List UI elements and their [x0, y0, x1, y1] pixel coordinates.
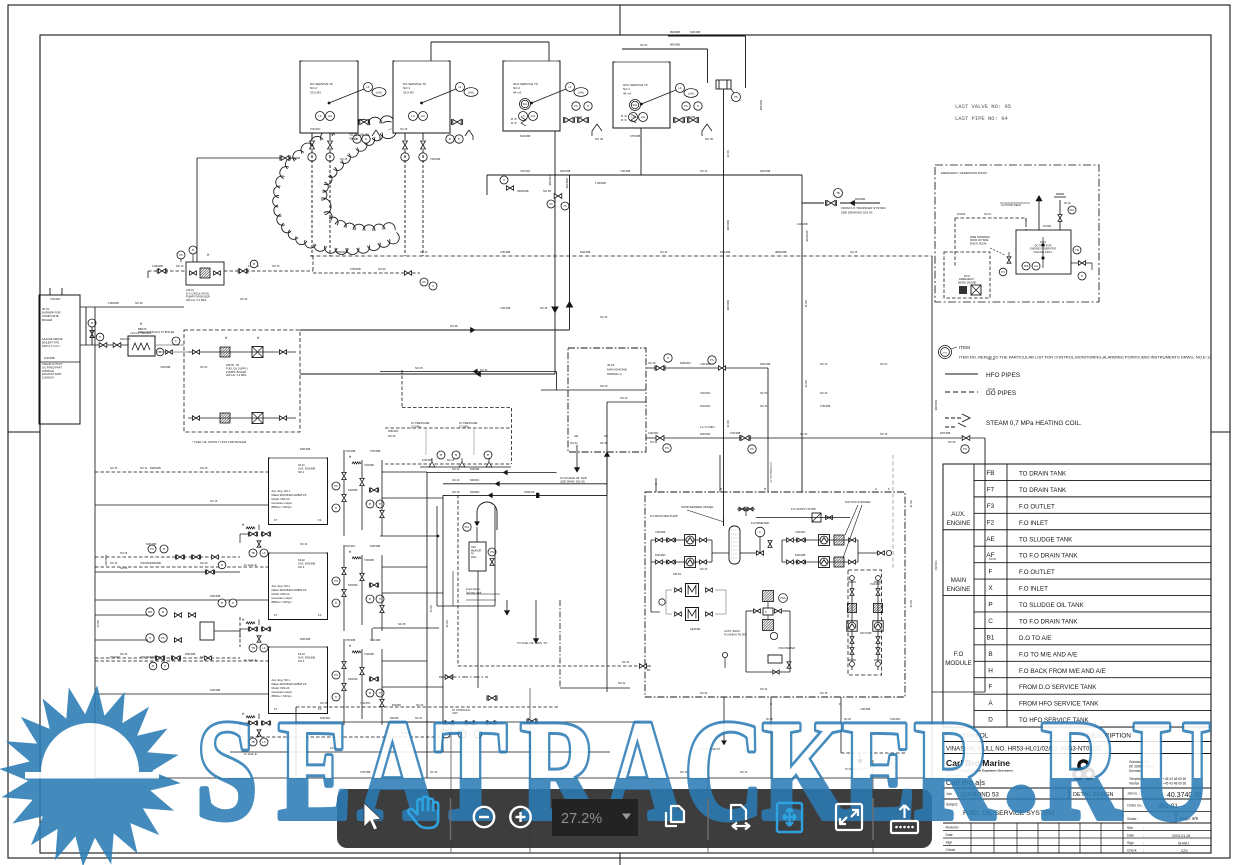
svg-text:LF: LF — [366, 85, 369, 89]
svg-text:NO 40: NO 40 — [240, 298, 248, 301]
svg-text:AE: AE — [574, 434, 578, 438]
svg-text:NO 32: NO 32 — [760, 405, 768, 408]
svg-text:PI: PI — [221, 601, 224, 605]
svg-text:NO 25: NO 25 — [120, 653, 128, 656]
svg-text:FO SLUDGE OIL TANK: FO SLUDGE OIL TANK — [560, 476, 587, 480]
svg-text:B1: B1 — [647, 668, 651, 672]
svg-text:33.5 M3: 33.5 M3 — [310, 90, 321, 94]
svg-text:703K06B: 703K06B — [364, 653, 374, 656]
svg-text:84K06D: 84K06D — [470, 490, 480, 494]
svg-text:TB: TB — [251, 551, 255, 555]
svg-text:842K06B: 842K06B — [726, 220, 729, 231]
svg-text:AF: AF — [604, 434, 608, 438]
svg-text:BOILER TYPE: BOILER TYPE — [42, 340, 59, 344]
svg-text:840K06B: 840K06B — [210, 595, 221, 598]
svg-text:FROM F.O TRANSFER SYSTEM: FROM F.O TRANSFER SYSTEM — [841, 206, 886, 210]
svg-text:*: * — [225, 337, 228, 343]
svg-text:PUMPS, BOILER: PUMPS, BOILER — [226, 370, 246, 374]
svg-text:F7: F7 — [987, 486, 995, 493]
svg-text:PI: PI — [162, 610, 165, 614]
svg-text:* FUEL OIL SUPPLY UNIT FOR BO: * FUEL OIL SUPPLY UNIT FOR BOILER — [192, 440, 247, 444]
svg-text:PS: PS — [334, 673, 338, 677]
svg-text:280K06B: 280K06B — [336, 250, 348, 254]
svg-text:740K06B: 740K06B — [655, 531, 666, 534]
svg-text:A: A — [875, 487, 877, 491]
svg-text:F3 SLUDGE OIL TK: F3 SLUDGE OIL TK — [769, 462, 771, 483]
svg-text:Maker:MAN B&W-GMB4T1/5: Maker:MAN B&W-GMB4T1/5 — [272, 493, 307, 497]
svg-text:F.O: F.O — [954, 651, 964, 658]
svg-text:NO 32: NO 32 — [800, 433, 808, 436]
svg-text:TI: TI — [149, 636, 152, 640]
svg-text:PS: PS — [334, 579, 338, 583]
svg-text:2000KG/H: 2000KG/H — [42, 369, 54, 373]
svg-text:NO 50: NO 50 — [96, 620, 99, 628]
svg-text:843K06B: 843K06B — [146, 543, 157, 546]
svg-text:740K06B: 740K06B — [370, 639, 381, 642]
svg-text:TO SLUDGE OIL TANK: TO SLUDGE OIL TANK — [1019, 602, 1085, 609]
svg-text:TO FUEL OIL SERV. TK.: TO FUEL OIL SERV. TK. — [517, 641, 548, 645]
svg-text:PI: PI — [192, 248, 195, 252]
svg-text:NO 40: NO 40 — [575, 116, 583, 119]
svg-text:LAHL: LAHL — [688, 92, 695, 95]
svg-text:ZZX: ZZX — [1181, 849, 1188, 853]
svg-text:TI: TI — [232, 601, 235, 605]
svg-text:B: B — [988, 651, 992, 658]
svg-text:NO 32: NO 32 — [618, 682, 626, 685]
svg-text:NO 40: NO 40 — [1064, 203, 1071, 205]
svg-text:F.O TO M/E AND A/E: F.O TO M/E AND A/E — [1019, 651, 1077, 658]
svg-text:842K06B: 842K06B — [580, 251, 591, 254]
svg-text:F.O SUPPLY PUMP: F.O SUPPLY PUMP — [791, 507, 816, 511]
svg-text:To drain tk.: To drain tk. — [244, 658, 258, 662]
svg-text:PS: PS — [334, 484, 338, 488]
svg-text:N7 PRESSURE: N7 PRESSURE — [411, 421, 430, 425]
svg-text:NO 25: NO 25 — [340, 158, 348, 161]
svg-text:PI: PI — [440, 453, 443, 457]
svg-text:HOMOGENIZER VESSEL: HOMOGENIZER VESSEL — [681, 505, 714, 509]
svg-text:6S50MC-C: 6S50MC-C — [607, 372, 623, 376]
svg-text:840K06B: 840K06B — [760, 170, 771, 173]
svg-text:27.2%: 27.2% — [561, 811, 602, 827]
svg-text:840K06B: 840K06B — [150, 466, 161, 470]
svg-text:NO 40: NO 40 — [429, 605, 432, 613]
svg-text:LS: LS — [318, 114, 321, 118]
svg-text:BOILER: BOILER — [42, 318, 52, 322]
svg-text:375K06B: 375K06B — [685, 116, 696, 119]
svg-text:LAST PIPE NO: 94: LAST PIPE NO: 94 — [955, 115, 1009, 122]
svg-text:L1/0.9 t/h HEATING: L1/0.9 t/h HEATING — [130, 332, 151, 335]
svg-text:880Kw x 720rpm: 880Kw x 720rpm — [272, 600, 293, 604]
svg-text:702K06C: 702K06C — [110, 656, 121, 659]
svg-text:PI: PI — [253, 262, 256, 266]
svg-text:NO 40: NO 40 — [648, 361, 656, 365]
svg-text:TI: TI — [335, 506, 338, 510]
svg-text:NO 25: NO 25 — [398, 622, 406, 626]
svg-text:AUX. ENGINE: AUX. ENGINE — [298, 656, 316, 660]
svg-text:F.O OUTLET: F.O OUTLET — [1019, 569, 1055, 576]
svg-text:N7 PRESSURE: N7 PRESSURE — [459, 421, 478, 425]
svg-text:NO 25: NO 25 — [447, 459, 455, 462]
svg-text:702K06C: 702K06C — [700, 392, 711, 395]
svg-text:NO 32: NO 32 — [300, 543, 308, 546]
svg-text:840K06B: 840K06B — [150, 561, 161, 565]
svg-text:PAL: PAL — [1070, 208, 1075, 212]
svg-text:F.O INLET: F.O INLET — [1019, 520, 1048, 527]
svg-text:H: H — [988, 667, 993, 674]
svg-text:TS: TS — [563, 204, 567, 208]
svg-text:SEE DRAWING 501-03: SEE DRAWING 501-03 — [841, 210, 873, 214]
svg-text:841K06C: 841K06C — [345, 545, 356, 548]
svg-text:PS: PS — [963, 447, 967, 451]
svg-text:NO 25: NO 25 — [804, 380, 807, 388]
svg-text:TO DRAIN TANK: TO DRAIN TANK — [1019, 487, 1067, 494]
svg-text:846K06C: 846K06C — [680, 361, 691, 365]
svg-text:B1: B1 — [987, 634, 995, 641]
svg-text:F3: F3 — [318, 613, 322, 617]
svg-text:NO 25: NO 25 — [850, 251, 858, 254]
svg-text:86K06B: 86K06B — [670, 43, 680, 47]
svg-text:AUX. ENGINE: AUX. ENGINE — [298, 562, 316, 566]
svg-text:84K06C: 84K06C — [470, 478, 480, 482]
svg-text:840K06B: 840K06B — [300, 638, 311, 641]
svg-text:NO 15: NO 15 — [110, 562, 118, 565]
svg-text:AUX.: AUX. — [951, 511, 966, 518]
svg-text:112K06B: 112K06B — [44, 356, 55, 360]
svg-text:NO 40: NO 40 — [600, 384, 608, 388]
svg-text:847K06B: 847K06B — [940, 432, 951, 435]
svg-text:703K06B: 703K06B — [364, 559, 374, 562]
svg-text:200e: 200e — [471, 556, 477, 559]
svg-text:TI: TI — [379, 597, 382, 601]
svg-text:NO 32: NO 32 — [804, 300, 807, 308]
svg-text:740K06B: 740K06B — [160, 366, 171, 369]
svg-text:D.O TO A/E: D.O TO A/E — [1019, 635, 1051, 642]
svg-text:FUEL OIL SUPPLY: FUEL OIL SUPPLY — [226, 366, 248, 370]
svg-text:*: * — [242, 619, 245, 625]
svg-text:NO 25: NO 25 — [120, 567, 128, 570]
svg-text:842K06B: 842K06B — [760, 363, 771, 366]
svg-text:F.O OUTLET: F.O OUTLET — [1019, 503, 1055, 510]
svg-text:F.O INLET: F.O INLET — [1019, 586, 1048, 593]
svg-text:TI: TI — [587, 104, 590, 108]
svg-text:89K06B: 89K06B — [670, 30, 680, 34]
svg-text:TI: TI — [365, 137, 368, 141]
svg-text:SUCTION STRAINER: SUCTION STRAINER — [845, 500, 871, 504]
svg-text:300 L/H, 0.4 MPa: 300 L/H, 0.4 MPa — [186, 298, 207, 302]
svg-text:33.0 M3: 33.0 M3 — [403, 90, 414, 94]
svg-text:Generator output: Generator output — [272, 501, 293, 505]
svg-text:LAHL: LAHL — [578, 91, 585, 94]
svg-text:F3: F3 — [318, 518, 322, 522]
svg-text:63.03: 63.03 — [298, 652, 305, 656]
svg-text:390K06B: 390K06B — [517, 189, 529, 193]
svg-text:703K06B: 703K06B — [364, 464, 374, 467]
svg-text:49 m3: 49 m3 — [513, 90, 522, 94]
svg-text:NO 50: NO 50 — [640, 44, 648, 47]
svg-text:C: C — [988, 618, 993, 625]
svg-text:LAL: LAL — [531, 114, 536, 118]
svg-text:842K06B: 842K06B — [565, 178, 568, 189]
svg-text:375K06B: 375K06B — [820, 405, 831, 408]
svg-text:F: F — [888, 487, 890, 491]
svg-text:AE: AE — [986, 536, 995, 543]
svg-text:P: P — [988, 602, 992, 609]
svg-text:Maker:MAN B&W-GMB4T1/5: Maker:MAN B&W-GMB4T1/5 — [272, 682, 307, 686]
svg-text:D: D — [764, 487, 767, 491]
svg-text:443K06C: 443K06C — [648, 432, 659, 435]
svg-text:46.01: 46.01 — [607, 363, 615, 367]
svg-text:EMERGENCY GENERATOR ROOM: EMERGENCY GENERATOR ROOM — [941, 171, 987, 175]
svg-text:LF: LF — [458, 85, 461, 89]
svg-text:LS: LS — [411, 114, 414, 118]
svg-text:EXHAUST PART: EXHAUST PART — [42, 372, 62, 376]
svg-text:NO 30: NO 30 — [595, 137, 604, 141]
svg-text:NO 30: NO 30 — [135, 301, 143, 305]
svg-text:185.03: 185.03 — [673, 572, 681, 576]
svg-text:842K06B: 842K06B — [726, 300, 729, 311]
svg-text:F.O BACK FROM M/E AND A/E: F.O BACK FROM M/E AND A/E — [1019, 668, 1106, 675]
svg-text:740K06B: 740K06B — [620, 170, 631, 173]
svg-text:PS: PS — [150, 547, 154, 551]
svg-text:PS: PS — [665, 446, 669, 450]
svg-text:NO 50: NO 50 — [880, 363, 888, 366]
svg-text:575K06B: 575K06B — [350, 267, 361, 271]
svg-text:F.O BOOSTER PUMP: F.O BOOSTER PUMP — [650, 514, 678, 518]
svg-text:FLOWMETER: FLOWMETER — [751, 521, 769, 525]
svg-text:146K06B: 146K06B — [108, 301, 119, 305]
svg-text:OIL FIRED PART: OIL FIRED PART — [42, 365, 62, 369]
svg-text:842K06B: 842K06B — [690, 31, 701, 34]
svg-text:NO 15: NO 15 — [660, 251, 668, 254]
svg-text:300 L/H, 3.4 MPa: 300 L/H, 3.4 MPa — [226, 373, 247, 377]
svg-text:740K06B: 740K06B — [500, 307, 511, 310]
svg-text:DIESEL ENGINE: DIESEL ENGINE — [958, 281, 977, 284]
svg-text:X08: X08 — [1024, 264, 1029, 268]
svg-text:X: X — [988, 585, 993, 592]
svg-text:PI: PI — [449, 137, 452, 141]
svg-text:840K06C: 840K06C — [348, 489, 358, 492]
svg-text:840K06C: 840K06C — [348, 678, 358, 681]
svg-text:NO 40: NO 40 — [452, 490, 460, 494]
svg-text:ENGINE: ENGINE — [947, 586, 971, 593]
svg-text:843K06D: 843K06D — [700, 433, 711, 436]
svg-text:41K06A: 41K06A — [1043, 225, 1052, 228]
svg-text:NO 25: NO 25 — [726, 150, 729, 158]
svg-text:702K06C: 702K06C — [520, 170, 531, 173]
svg-text:NO 25: NO 25 — [415, 366, 423, 370]
svg-text:To drain tk.: To drain tk. — [244, 563, 258, 567]
svg-text:TI: TI — [164, 664, 167, 668]
svg-text:PS: PS — [734, 95, 738, 99]
svg-text:PS: PS — [179, 253, 183, 257]
svg-text:TI: TI — [99, 335, 102, 339]
svg-text:TO F.O DRAIN TANK: TO F.O DRAIN TANK — [1019, 553, 1078, 560]
svg-text:PS: PS — [1001, 270, 1005, 274]
svg-text:84K06B: 84K06B — [855, 197, 865, 201]
svg-text:NO 32: NO 32 — [140, 467, 148, 470]
svg-text:Aux. Eng. NO.1: Aux. Eng. NO.1 — [272, 584, 291, 588]
svg-text:843K06D: 843K06D — [655, 554, 666, 557]
svg-text:TI: TI — [667, 356, 670, 360]
svg-text:TI: TI — [221, 563, 224, 567]
svg-text:*: * — [349, 456, 352, 462]
svg-text:PI: PI — [369, 502, 372, 506]
svg-text:PI: PI — [369, 597, 372, 601]
svg-text:AF: AF — [986, 552, 994, 559]
svg-text:DO PIPES: DO PIPES — [986, 390, 1016, 397]
svg-text:NO 50: NO 50 — [200, 366, 208, 369]
svg-text:TO F.O DRAIN TANK: TO F.O DRAIN TANK — [1019, 618, 1078, 625]
svg-text:845K06B: 845K06B — [185, 653, 196, 656]
svg-text:H: H — [765, 611, 767, 614]
svg-text:NO 15: NO 15 — [210, 500, 218, 503]
svg-text:*: * — [207, 254, 210, 260]
svg-text:NO 65: NO 65 — [948, 441, 956, 444]
svg-text:NO 40: NO 40 — [600, 316, 608, 319]
svg-text:NO 25: NO 25 — [200, 561, 208, 565]
svg-text:NO 38: NO 38 — [600, 441, 608, 445]
svg-text:NO 25: NO 25 — [540, 307, 548, 310]
svg-text:63.02: 63.02 — [298, 558, 305, 562]
svg-text:180 PUMP: 180 PUMP — [860, 632, 872, 635]
svg-text:NO 32: NO 32 — [622, 661, 630, 664]
svg-text:*: * — [257, 337, 260, 343]
svg-text:470K06B: 470K06B — [730, 432, 741, 435]
svg-text:NO.3: NO.3 — [298, 659, 305, 663]
svg-text:NO 25: NO 25 — [400, 128, 408, 131]
svg-text:840K06C: 840K06C — [348, 584, 358, 587]
svg-text:LF: LF — [678, 86, 681, 90]
svg-text:TI: TI — [697, 104, 700, 108]
svg-text:170K06B: 170K06B — [595, 181, 606, 185]
svg-text:Maker:MAN B&W-GMB4T1/5: Maker:MAN B&W-GMB4T1/5 — [272, 588, 307, 592]
svg-text:PS: PS — [549, 202, 553, 206]
svg-text:NO 40: NO 40 — [650, 441, 658, 444]
svg-text:*: * — [349, 551, 352, 557]
svg-text:ITEM: ITEM — [959, 345, 970, 350]
svg-text:L1 / 0.4 MPa: L1 / 0.4 MPa — [700, 425, 715, 429]
svg-text:F2: F2 — [987, 519, 995, 526]
svg-text:432K06B: 432K06B — [805, 230, 809, 242]
svg-text:840K06B: 840K06B — [300, 448, 311, 451]
svg-text:841K06C: 841K06C — [120, 338, 131, 341]
svg-text:702K06C: 702K06C — [310, 128, 321, 131]
svg-text:VISCOMETER: VISCOMETER — [778, 646, 795, 650]
svg-text:185.05 - 05: 185.05 - 05 — [226, 363, 240, 367]
svg-text:375K06B: 375K06B — [630, 135, 641, 138]
svg-text:MODULE: MODULE — [945, 660, 971, 667]
svg-text:840K06B: 840K06B — [934, 400, 937, 411]
svg-text:FB: FB — [986, 470, 994, 477]
svg-text:PS: PS — [161, 636, 165, 640]
svg-text:NO.2: NO.2 — [298, 565, 305, 569]
svg-text:702K06C: 702K06C — [50, 298, 61, 301]
svg-text:675K06B: 675K06B — [422, 459, 433, 462]
svg-text:NO 30: NO 30 — [705, 137, 714, 141]
svg-text:841K06C: 841K06C — [700, 405, 711, 408]
svg-text:84K06B: 84K06B — [470, 467, 480, 471]
svg-text:702K06C: 702K06C — [140, 656, 151, 659]
svg-text:AUTO. BACK-: AUTO. BACK- — [724, 629, 741, 633]
svg-text:0.7 MPa: 0.7 MPa — [411, 424, 421, 428]
svg-text:NO 40: NO 40 — [420, 251, 428, 254]
svg-text:AUX. ENGINE: AUX. ENGINE — [298, 467, 316, 471]
svg-text:NO 25: NO 25 — [909, 600, 912, 608]
svg-text:HFO PIPES: HFO PIPES — [986, 372, 1020, 379]
svg-text:NO 40: NO 40 — [620, 396, 628, 400]
svg-text:375K06B: 375K06B — [500, 251, 511, 254]
svg-text:411K06B: 411K06B — [797, 222, 808, 226]
svg-text:PI: PI — [163, 547, 166, 551]
svg-text:1100KG/H: 1100KG/H — [42, 376, 54, 380]
svg-text:421K06: 421K06 — [957, 213, 966, 216]
svg-text:480K06B: 480K06B — [775, 250, 787, 254]
svg-text:V: V — [432, 284, 434, 288]
svg-text:Aux. Eng. NO.1: Aux. Eng. NO.1 — [272, 489, 291, 493]
svg-text:LS: LS — [262, 740, 265, 744]
svg-text:LAL: LAL — [1034, 264, 1039, 268]
svg-text:740K06B: 740K06B — [345, 450, 356, 453]
svg-text:TI: TI — [335, 601, 338, 605]
svg-text:NO 40: NO 40 — [820, 363, 828, 366]
svg-text:840K06B: 840K06B — [560, 170, 571, 173]
svg-text:MAIN: MAIN — [951, 577, 966, 584]
svg-text:843K06D: 843K06D — [104, 555, 107, 566]
svg-text:PAL: PAL — [465, 525, 470, 529]
svg-text:NO 15: NO 15 — [176, 264, 184, 268]
svg-text:LAL: LAL — [641, 115, 646, 119]
svg-text:PS: PS — [422, 280, 426, 284]
svg-text:702K06C: 702K06C — [795, 531, 806, 534]
svg-text:NO 25: NO 25 — [120, 552, 128, 555]
svg-text:842K06B: 842K06B — [370, 545, 381, 548]
svg-text:NO 25: NO 25 — [110, 467, 118, 470]
svg-text:LF: LF — [568, 85, 571, 89]
svg-text:STEAM 0,7 MPa HEATING COIL.: STEAM 0,7 MPa HEATING COIL. — [986, 420, 1082, 427]
svg-text:ORIFICE: ORIFICE — [524, 490, 535, 494]
svg-text:ENGIN. ROOM: ENGIN. ROOM — [970, 242, 986, 245]
svg-text:840K06B: 840K06B — [795, 554, 806, 557]
svg-text:ENGINE: ENGINE — [947, 520, 971, 527]
svg-text:140K06B: 140K06B — [152, 264, 163, 268]
svg-text:NO 25: NO 25 — [388, 435, 396, 438]
svg-text:NO 32: NO 32 — [452, 467, 460, 471]
svg-text:Model: 6DK-20: Model: 6DK-20 — [272, 592, 290, 596]
svg-text:Feed tanks f: Feed tanks f — [466, 587, 481, 591]
svg-text:F7: F7 — [274, 613, 278, 617]
svg-text:LAL: LAL — [421, 114, 426, 118]
svg-text:PS: PS — [490, 550, 494, 554]
svg-text:NO 50: NO 50 — [760, 392, 768, 395]
svg-text:PI: PI — [91, 321, 94, 325]
svg-text:TB: TB — [251, 646, 255, 650]
svg-text:740K06B: 740K06B — [700, 363, 711, 366]
svg-text:NO 40: NO 40 — [452, 478, 460, 482]
svg-text:TI: TI — [1081, 274, 1084, 278]
svg-text:SI: SI — [455, 453, 458, 457]
svg-text:XXX: XXX — [943, 353, 948, 355]
svg-text:HEATER: HEATER — [690, 627, 700, 631]
svg-text:TANK: TANK — [349, 137, 358, 141]
svg-text:842K06B: 842K06B — [520, 135, 531, 138]
svg-text:LAL: LAL — [328, 114, 333, 118]
svg-text:NO 50: NO 50 — [378, 267, 386, 271]
svg-text:LS: LS — [262, 646, 265, 650]
svg-text:TI: TI — [379, 502, 382, 506]
svg-text:FLUSHING FILTER: FLUSHING FILTER — [724, 632, 747, 636]
svg-text:F: F — [989, 569, 993, 576]
svg-text:702K06C: 702K06C — [934, 560, 937, 571]
